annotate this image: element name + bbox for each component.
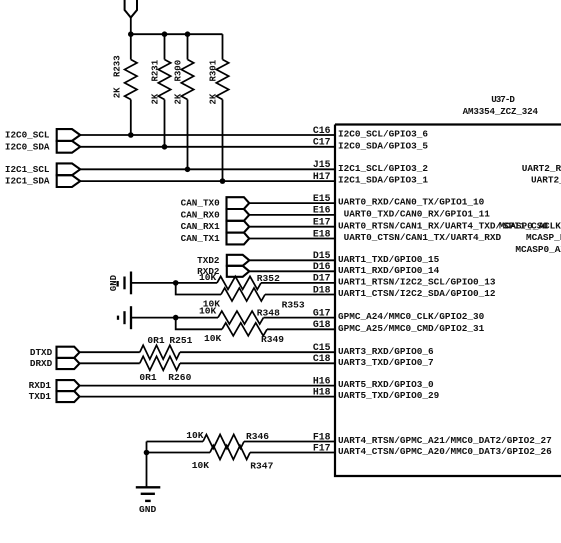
power symbol VDD flag (cut off at top)	[125, 0, 137, 18]
resistor R233 2K pull-up	[130, 34, 132, 59]
svg-text:UART0_RXD/CAN0_TX/GPIO1_10: UART0_RXD/CAN0_TX/GPIO1_10	[338, 197, 485, 208]
port CAN_RX1	[227, 221, 250, 233]
svg-text:10K: 10K	[204, 333, 222, 344]
svg-text:R346: R346	[246, 431, 269, 442]
wire CAN to pin E18	[249, 238, 335, 240]
svg-text:CAN_RX1: CAN_RX1	[181, 221, 220, 232]
wire DRXD to R260	[80, 362, 140, 364]
svg-text:SPI1_CS0: SPI1_CS0	[503, 220, 548, 231]
port CAN_RX0	[227, 209, 250, 221]
svg-text:I2C0_SDA: I2C0_SDA	[5, 141, 50, 152]
wire RXD1 to pin H16	[80, 385, 336, 387]
svg-text:D15: D15	[313, 250, 331, 261]
svg-text:CAN_TX0: CAN_TX0	[181, 198, 220, 209]
port I2C1_SCL	[57, 163, 80, 175]
resistor R300 2K pull-up	[187, 34, 189, 59]
svg-text:D17: D17	[313, 273, 331, 284]
svg-text:G17: G17	[313, 307, 331, 318]
svg-text:R231: R231	[151, 59, 161, 81]
resistor R251 0R1	[140, 345, 180, 359]
wire F18 feed	[147, 441, 204, 443]
svg-text:MCASP0_AX: MCASP0_AX	[515, 244, 561, 255]
resistor R301 2K pull-up	[222, 34, 224, 59]
port I2C0_SDA	[57, 141, 80, 153]
svg-text:UART1_RXD/GPIO0_14: UART1_RXD/GPIO0_14	[338, 265, 440, 276]
ground symbol GND (rotated) for R352/R353	[130, 272, 132, 295]
wire I2C0_SCL net	[80, 134, 335, 136]
port RXD1	[57, 380, 80, 391]
svg-text:2K: 2K	[151, 93, 161, 104]
svg-text:I2C1_SCL: I2C1_SCL	[5, 164, 50, 175]
svg-text:I2C1_SDA/GPIO3_1: I2C1_SDA/GPIO3_1	[338, 175, 428, 186]
svg-text:UART1_CTSN/I2C2_SDA/GPIO0_12: UART1_CTSN/I2C2_SDA/GPIO0_12	[338, 288, 496, 299]
wire DTXD to R251	[80, 351, 140, 353]
svg-text:TXD1: TXD1	[29, 391, 52, 402]
svg-text:H16: H16	[313, 375, 331, 386]
resistor R346 10K	[203, 435, 244, 449]
svg-text:0R1: 0R1	[147, 335, 165, 346]
wire R349 to pin G18	[267, 328, 335, 330]
wire F17 feed	[147, 452, 211, 454]
port TXD1	[57, 391, 80, 402]
svg-text:UART4_CTSN/GPMC_A20/MMC0_DAT3/: UART4_CTSN/GPMC_A20/MMC0_DAT3/GPIO2_26	[338, 446, 552, 457]
ground symbol (rotated) for R348/R349	[130, 306, 132, 329]
svg-text:UART5_RXD/GPIO3_0: UART5_RXD/GPIO3_0	[338, 379, 434, 390]
svg-text:D16: D16	[313, 261, 331, 272]
wire R260 to pin C18	[180, 362, 335, 364]
svg-text:2K: 2K	[174, 93, 184, 104]
svg-text:UART2_RT: UART2_RT	[531, 175, 561, 186]
junction R233 to wire	[128, 132, 134, 138]
wire R352 to pin D17	[261, 282, 335, 284]
IC U37-D AM3354_ZCZ_324 box outline	[335, 125, 561, 477]
svg-text:I2C0_SDA/GPIO3_5: I2C0_SDA/GPIO3_5	[338, 140, 428, 151]
svg-text:R251: R251	[169, 335, 192, 346]
svg-text:I2C0_SCL/GPIO3_6: I2C0_SCL/GPIO3_6	[338, 129, 428, 140]
svg-text:F18: F18	[313, 431, 331, 442]
junction F17 feed	[144, 450, 150, 456]
svg-text:F17: F17	[313, 442, 331, 453]
port RXD2	[227, 266, 250, 277]
wire I2C1_SCL net	[80, 168, 335, 170]
svg-text:I2C1_SCL/GPIO3_2: I2C1_SCL/GPIO3_2	[338, 163, 428, 174]
svg-text:I2C1_SDA: I2C1_SDA	[5, 176, 50, 187]
wire power stem	[130, 18, 132, 35]
svg-text:H17: H17	[313, 171, 331, 182]
svg-text:UART1_RTSN/I2C2_SCL/GPIO0_13: UART1_RTSN/I2C2_SCL/GPIO0_13	[338, 277, 496, 288]
svg-text:R233: R233	[113, 55, 123, 77]
wire CAN to pin E15	[249, 202, 335, 204]
svg-text:UART0_RTSN/CAN1_RX/UART4_TXD/: UART0_RTSN/CAN1_RX/UART4_TXD/	[338, 220, 502, 231]
wire R346 to pin F18	[244, 441, 335, 443]
wire I2C0_SDA net	[80, 146, 335, 148]
wire R347 to pin F17	[250, 452, 335, 454]
svg-text:R300: R300	[174, 60, 184, 82]
svg-text:2K: 2K	[113, 87, 123, 98]
svg-text:TXD2: TXD2	[197, 255, 220, 266]
ground symbol GND bottom	[136, 486, 161, 488]
wire R348 to pin G17	[264, 317, 336, 319]
wire power bus	[130, 33, 223, 35]
wire I2C1_SDA net	[80, 180, 335, 182]
resistor R352 10K	[217, 276, 261, 289]
wire CAN to pin E17	[249, 226, 335, 228]
svg-text:J15: J15	[313, 159, 331, 170]
svg-text:MCASP_F: MCASP_F	[526, 232, 561, 243]
svg-text:D18: D18	[313, 284, 331, 295]
svg-text:E16: E16	[313, 205, 331, 216]
wire TXD1 to pin H18	[80, 396, 336, 398]
wire RXD2 to pin D16	[249, 270, 335, 272]
svg-text:10K: 10K	[199, 306, 217, 317]
svg-text:R301: R301	[209, 59, 219, 81]
resistor R353 10K	[221, 288, 265, 301]
svg-text:GPMC_A24/MMC0_CLK/GPIO2_30: GPMC_A24/MMC0_CLK/GPIO2_30	[338, 311, 485, 322]
svg-text:GPMC_A25/MMC0_CMD/GPIO2_31: GPMC_A25/MMC0_CMD/GPIO2_31	[338, 323, 485, 334]
resistor R349 10K	[222, 323, 267, 336]
wire TXD2 to pin D15	[249, 259, 335, 261]
port DTXD	[57, 347, 80, 358]
svg-text:U37-D: U37-D	[491, 94, 515, 105]
svg-text:H18: H18	[313, 386, 331, 397]
svg-text:C16: C16	[313, 125, 331, 136]
svg-text:UART4_RTSN/GPMC_A21/MMC0_DAT2/: UART4_RTSN/GPMC_A21/MMC0_DAT2/GPIO2_27	[338, 435, 552, 446]
svg-text:10K: 10K	[199, 272, 217, 283]
svg-text:R353: R353	[282, 299, 305, 310]
junction bus/R233	[128, 31, 134, 37]
port I2C1_SDA	[57, 175, 80, 187]
svg-text:E15: E15	[313, 193, 331, 204]
svg-text:GND: GND	[109, 274, 119, 291]
svg-text:CAN_RX0: CAN_RX0	[181, 209, 220, 220]
wire drop to G18 row	[176, 318, 222, 330]
junction bus/R300	[185, 31, 191, 37]
resistor R231 2K pull-up	[164, 34, 166, 59]
svg-text:0R1: 0R1	[139, 372, 157, 383]
svg-text:E18: E18	[313, 228, 331, 239]
svg-text:GND: GND	[139, 504, 157, 515]
svg-text:AM3354_ZCZ_324: AM3354_ZCZ_324	[463, 106, 539, 117]
svg-text:G18: G18	[313, 319, 331, 330]
port CAN_TX0	[227, 197, 250, 209]
port I2C0_SCL	[57, 129, 80, 141]
wire drop to D18 row	[176, 283, 221, 295]
svg-text:UART2_RX: UART2_RX	[522, 163, 561, 174]
resistor R260 0R1	[140, 356, 180, 370]
svg-text:DTXD: DTXD	[30, 347, 53, 358]
junction R348/R349 feed	[173, 315, 179, 321]
svg-text:UART3_TXD/GPIO0_7: UART3_TXD/GPIO0_7	[338, 357, 434, 368]
junction R352/R353 feed	[173, 280, 179, 286]
resistor R347 10K	[210, 446, 250, 460]
port TXD2	[227, 255, 250, 266]
wire R353 to pin D18	[265, 294, 335, 296]
svg-text:E17: E17	[313, 217, 331, 228]
wire R251 to pin C15	[180, 351, 335, 353]
svg-text:C18: C18	[313, 353, 331, 364]
svg-text:UART5_TXD/GPIO0_29: UART5_TXD/GPIO0_29	[338, 390, 440, 401]
svg-text:RXD1: RXD1	[29, 380, 52, 391]
svg-text:CAN_TX1: CAN_TX1	[181, 233, 220, 244]
resistor R348 10K	[218, 311, 263, 324]
svg-text:10K: 10K	[186, 430, 204, 441]
junction bus/R231	[162, 31, 168, 37]
svg-text:2K: 2K	[209, 93, 219, 104]
svg-text:UART1_TXD/GPIO0_15: UART1_TXD/GPIO0_15	[338, 254, 440, 265]
junction R300 to wire	[185, 167, 191, 173]
svg-text:C17: C17	[313, 137, 331, 148]
svg-text:UART0_CTSN/CAN1_TX/UART4_RXD: UART0_CTSN/CAN1_TX/UART4_RXD	[344, 232, 502, 243]
junction R231 to wire	[162, 144, 168, 150]
svg-text:R349: R349	[261, 334, 284, 345]
port CAN_TX1	[227, 233, 250, 245]
wire CAN to pin E16	[249, 214, 335, 216]
svg-text:10K: 10K	[192, 460, 210, 471]
junction R301 to wire	[220, 178, 226, 184]
svg-text:R260: R260	[168, 372, 191, 383]
svg-text:DRXD: DRXD	[30, 358, 53, 369]
svg-text:C15: C15	[313, 342, 331, 353]
svg-text:I2C0_SCL: I2C0_SCL	[5, 130, 50, 141]
wire GND to junction G17	[131, 317, 218, 319]
svg-text:UART3_RXD/GPIO0_6: UART3_RXD/GPIO0_6	[338, 346, 434, 357]
svg-text:UART0_TXD/CAN0_RX/GPIO1_11: UART0_TXD/CAN0_RX/GPIO1_11	[344, 209, 491, 220]
wire down to ground	[146, 442, 148, 487]
wire GND to junction D17	[131, 282, 217, 284]
port DRXD	[57, 358, 80, 369]
svg-text:R347: R347	[250, 461, 273, 472]
